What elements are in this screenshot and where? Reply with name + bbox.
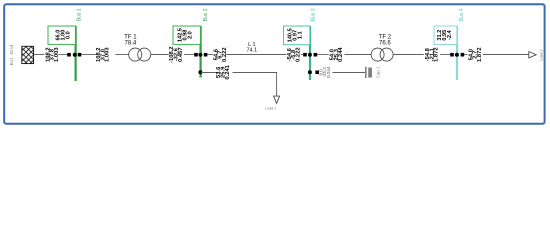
svg-text:Bus 1: Bus 1	[77, 8, 83, 21]
wire cap branch	[333, 72, 366, 74]
flow text bus1 side of TF1: 108.2 37.0 1.003	[96, 47, 111, 62]
external grid symbol	[22, 46, 34, 63]
flow text L1 to bus3: -54.6 -5.8 0.222	[287, 47, 302, 62]
Bus 3 name label	[311, 8, 317, 21]
svg-text:Load 1: Load 1	[265, 106, 276, 110]
busbar Bus 3	[309, 26, 311, 80]
flow text bus3 to cap1: 0.0 -25.3 0.244	[318, 66, 331, 78]
svg-text:1.872: 1.872	[434, 47, 440, 62]
frame border	[4, 4, 544, 124]
Bus 4 name label	[459, 8, 465, 21]
svg-text:1.003: 1.003	[54, 47, 60, 62]
svg-text:Cap 1: Cap 1	[376, 66, 381, 78]
Load 1 name label	[265, 106, 276, 110]
external grid label	[9, 45, 15, 66]
svg-text:0.241: 0.241	[225, 64, 231, 79]
breaker switch right of bus3	[314, 53, 318, 57]
svg-text:Load 2: Load 2	[540, 50, 544, 61]
Bus 1 name label	[77, 8, 83, 21]
svg-text:Bus 2: Bus 2	[203, 8, 209, 21]
wire bus2 to line L1	[207, 54, 303, 56]
result box bus2	[173, 26, 200, 44]
load Load 2 arrow	[529, 52, 536, 58]
Cap 1 name label	[376, 66, 381, 78]
result box bus3	[284, 26, 310, 45]
svg-text:0.244: 0.244	[338, 47, 344, 62]
flow text TF1 to bus2: -108.2 -32.6 0.457	[169, 46, 184, 62]
wire bus3 to TF2	[317, 54, 371, 56]
flow text TF2 to bus4: -54.8 -21.1 1.872	[425, 47, 440, 62]
busbar Bus 2	[200, 26, 202, 78]
breaker switch left of bus3	[303, 53, 307, 57]
TF2 labels	[379, 34, 392, 47]
svg-text:Bus 4: Bus 4	[459, 8, 465, 21]
transformer TF1	[129, 48, 151, 61]
svg-text:0.457: 0.457	[178, 47, 184, 62]
svg-text:Ext. Grid: Ext. Grid	[9, 45, 15, 66]
svg-text:Bus 3: Bus 3	[311, 8, 317, 21]
breaker switch left of bus4	[450, 53, 454, 57]
result box bus1	[48, 26, 75, 44]
wire bus4 to load2	[464, 54, 529, 56]
breaker switch right of bus4	[461, 53, 465, 57]
wire TF2 to bus4	[393, 54, 450, 56]
flow text ext grid: 108.2 37.8 1.003	[45, 47, 60, 62]
junction dot bus2	[198, 53, 202, 57]
svg-text:78.4: 78.4	[124, 39, 136, 46]
svg-text:1.872: 1.872	[477, 47, 483, 62]
wire bus2 to load1	[201, 73, 277, 97]
junction dot bus4	[455, 53, 459, 57]
flow text bus4 to load2: 54.0 2.7 1.872	[468, 47, 483, 62]
svg-text:1.1: 1.1	[298, 31, 304, 39]
svg-text:0.222: 0.222	[295, 47, 301, 62]
Bus 2 name label	[203, 8, 209, 21]
svg-text:0.222: 0.222	[222, 47, 228, 62]
TF1 labels	[124, 34, 137, 47]
breaker switch left of bus2	[194, 53, 198, 57]
breaker switch right of bus2	[204, 53, 208, 57]
wire TF1 to bus2	[151, 54, 194, 56]
junction dot bus3	[308, 53, 312, 57]
svg-text:76.6: 76.6	[379, 39, 391, 46]
cap branch junction dot on bus3	[308, 70, 312, 74]
svg-text:2.0: 2.0	[188, 31, 194, 39]
wire bus1 to TF1	[81, 54, 129, 56]
svg-text:74.1: 74.1	[246, 47, 257, 53]
wire ext grid to bus1	[34, 54, 67, 56]
busbar Bus 1	[74, 26, 76, 81]
flow text bus2 to L1: 54.6 6.7 0.222	[213, 47, 228, 62]
breaker switch left of bus1	[67, 53, 71, 57]
load Load 1 arrow	[274, 96, 280, 103]
svg-text:0.0: 0.0	[66, 31, 72, 39]
breaker switch cap branch	[315, 71, 319, 75]
breaker switch right of bus1	[78, 53, 82, 57]
svg-text:0.244: 0.244	[326, 66, 331, 78]
Load 2 name label	[540, 50, 544, 61]
svg-text:-2.4: -2.4	[447, 29, 453, 40]
result box bus4	[434, 26, 457, 45]
busbar Bus 4	[456, 26, 458, 80]
load1 branch junction dot on bus2	[198, 70, 202, 74]
transformer TF2	[371, 48, 393, 61]
svg-text:1.003: 1.003	[105, 47, 111, 62]
flow text bus2 to load1: 53.6 25.9 0.241	[216, 64, 231, 79]
junction dot bus1	[73, 53, 77, 57]
line L1 labels	[246, 42, 257, 53]
capacitor Cap 1 plates	[366, 67, 372, 78]
flow text bus3 to TF2: 54.0 25.3 0.244	[330, 47, 345, 62]
